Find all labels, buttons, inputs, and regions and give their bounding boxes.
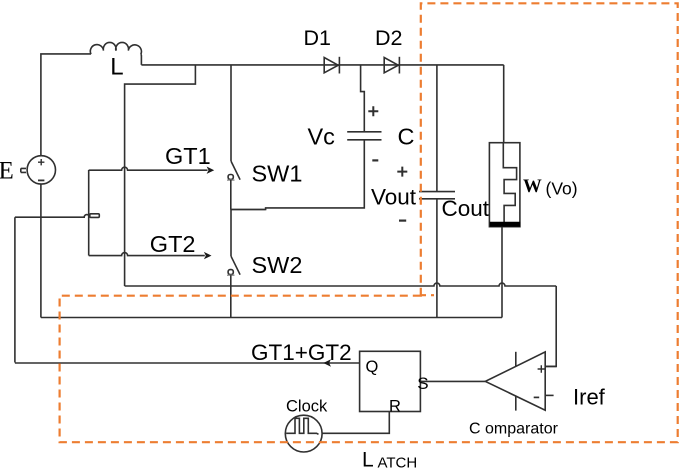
latch box <box>360 351 421 411</box>
label minus inside comparator <box>534 396 540 398</box>
switch SW2 contact base <box>227 274 235 276</box>
svg-text:GT2: GT2 <box>150 231 196 257</box>
diode D2 cathode bar <box>398 57 400 74</box>
svg-text:L: L <box>362 449 374 469</box>
terminal mark on E <box>21 168 26 172</box>
switch SW2 top lead <box>230 210 232 257</box>
switch SW1 bottom lead <box>230 180 232 210</box>
node tap at x=195 to bus <box>125 65 196 286</box>
wire load W bottom lead <box>501 227 503 318</box>
diode D1 cathode bar <box>338 57 340 74</box>
label minus of Vout <box>399 220 406 222</box>
wire E bottom lead <box>40 184 42 318</box>
svg-text:R: R <box>389 398 401 416</box>
svg-text:Vout: Vout <box>371 185 417 210</box>
label plus of Vout <box>397 167 407 177</box>
svg-text:(Vo): (Vo) <box>546 179 578 199</box>
comparator plus input stub <box>545 365 556 367</box>
wire latch output feed to gate bus <box>15 215 89 218</box>
gate bus vertical <box>88 170 90 256</box>
label plus of Vc <box>368 106 378 116</box>
capacitor C top plate <box>347 131 381 133</box>
wire latch S to comparator output <box>420 380 485 382</box>
capacitor Cout bottom plate <box>419 198 455 200</box>
svg-text:C: C <box>398 124 415 150</box>
comparator minus input stub <box>545 394 554 396</box>
switch SW2 blade <box>231 256 240 275</box>
wire clock to latch R input <box>322 412 389 434</box>
svg-text:D1: D1 <box>304 26 331 50</box>
arrowhead GT2 <box>204 252 212 259</box>
wire capacitor C bottom lead to SW midpoint <box>231 140 364 210</box>
arrowhead GT1+GT2 <box>323 359 331 366</box>
wire E top lead to inductor <box>41 54 91 156</box>
comparator triangle <box>485 352 545 410</box>
svg-text:SW1: SW1 <box>252 161 303 187</box>
load W inner stepped element <box>503 143 516 222</box>
switch SW1 blade <box>231 161 240 180</box>
orange dashed boundary overshoot <box>421 294 434 296</box>
switch SW1 top lead <box>230 65 232 161</box>
svg-text:GT1+GT2: GT1+GT2 <box>251 340 352 365</box>
comparator top power tick <box>515 352 517 366</box>
capacitor Cout top plate <box>419 191 455 193</box>
diode D2 <box>384 58 398 73</box>
wire GT2 <box>89 253 205 256</box>
svg-text:W: W <box>523 176 542 197</box>
svg-text:Clock: Clock <box>286 398 328 416</box>
label minus inside E <box>38 179 44 181</box>
wire Cout bottom lead <box>436 199 438 318</box>
wire SW midpoint rail <box>231 209 266 211</box>
capacitor C bottom plate <box>347 139 381 141</box>
svg-text:L: L <box>110 54 123 81</box>
wire rail A down to comparator plus input <box>545 286 556 366</box>
load W bottom electrode bar <box>490 222 521 227</box>
wire top rail corner down to load W <box>503 65 505 143</box>
switch SW1 contact circle <box>228 175 233 180</box>
svg-text:Q: Q <box>366 358 379 376</box>
switch SW2 bottom lead <box>230 275 232 317</box>
wire left vertical from latch output <box>14 217 16 362</box>
label plus inside E <box>38 159 44 165</box>
wire capacitor C top lead <box>361 65 365 131</box>
inductor L <box>90 42 141 54</box>
wire latch Q output with arrow <box>15 362 360 364</box>
wire bottom rail A <box>125 283 557 286</box>
comparator bottom power tick <box>515 397 517 411</box>
wire inductor to top rail <box>140 54 143 65</box>
svg-text:Vc: Vc <box>308 124 336 150</box>
node marker rectangle <box>90 214 100 218</box>
diode D1 <box>324 58 338 73</box>
label minus of Vc <box>372 159 378 161</box>
svg-text:Cout: Cout <box>442 196 490 221</box>
svg-text:D2: D2 <box>375 26 402 50</box>
svg-text:SW2: SW2 <box>252 252 303 278</box>
wire Cout top lead <box>436 65 438 192</box>
svg-text:C omparator: C omparator <box>469 421 559 438</box>
load W box <box>489 143 520 227</box>
wire bottom rail B <box>41 317 502 319</box>
clock pulse waveform <box>286 418 318 434</box>
switch SW1 contact base <box>227 179 235 181</box>
arrowhead GT1 <box>207 167 215 174</box>
voltage source E circle <box>27 156 55 184</box>
svg-text:GT1: GT1 <box>165 143 211 169</box>
svg-text:ATCH: ATCH <box>378 455 418 469</box>
clock circle <box>285 415 322 452</box>
svg-text:Iref: Iref <box>573 385 606 410</box>
wire top rail <box>141 64 503 66</box>
svg-text:E: E <box>0 158 14 185</box>
switch SW2 contact circle <box>228 270 233 275</box>
wire GT1 <box>89 167 208 170</box>
label plus inside comparator <box>538 365 545 372</box>
svg-text:S: S <box>417 374 428 393</box>
